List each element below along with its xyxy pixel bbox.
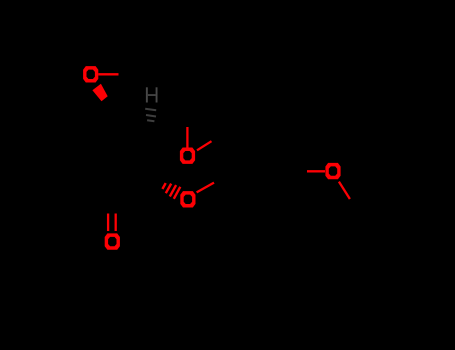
atom O2 (ring ether oxygen, middle upper) <box>180 148 195 164</box>
wire: O4 left bond dark half <box>290 170 307 172</box>
atom O1 (methoxy oxygen, top left) <box>83 66 98 82</box>
wire: O4 benzyl dark half to CH2 <box>350 199 361 216</box>
atom O5 (ketone oxygen, bottom left) <box>105 233 120 249</box>
wire: O3 diagonal dark half to C9 <box>214 173 231 183</box>
bond O1-CH3 (red half) <box>98 73 118 75</box>
bond O2 up-right to C8 (red half) <box>197 141 212 150</box>
atom O3 (ring ether oxygen, middle lower) <box>180 191 195 207</box>
wire: C7 stub to O2 <box>186 121 188 127</box>
bond O4 left to C10 (red half) <box>307 170 325 172</box>
atom H (stereo hydrogen, gray) <box>146 87 158 102</box>
wire: C9 chain to C10 <box>231 171 290 186</box>
hashed wedge bond C2 to O3 (red hash marks, slash oriented) <box>162 183 180 199</box>
wire: O2 diagonal dark half to C8 <box>211 134 227 142</box>
wire: methyl stub of O1 methoxy <box>119 73 141 75</box>
bond O2 up to C7 <box>186 127 188 148</box>
wire: C1 to ketone O5 dark half <box>111 199 113 214</box>
solid wedge bond C4 to O1 (red) <box>92 84 107 102</box>
double bond C1=O5 ketone <box>107 214 109 232</box>
wire: benzyl CH2 to phenyl <box>361 216 366 244</box>
hashed wedge bond C3 up to H (gray hash marks) <box>145 109 156 122</box>
wire: phenyl ring <box>361 232 425 300</box>
wire: C8-C9 <box>227 134 231 173</box>
wire: C3 to C7 <box>152 121 187 125</box>
wire: cyclohexanone ring <box>58 100 158 199</box>
atom O4 (benzyloxy oxygen, right) <box>325 163 340 179</box>
bond O4 down-right to benzyl CH2 (red half) <box>339 182 350 199</box>
bond O3 up-right to C9 (red half) <box>197 183 214 193</box>
